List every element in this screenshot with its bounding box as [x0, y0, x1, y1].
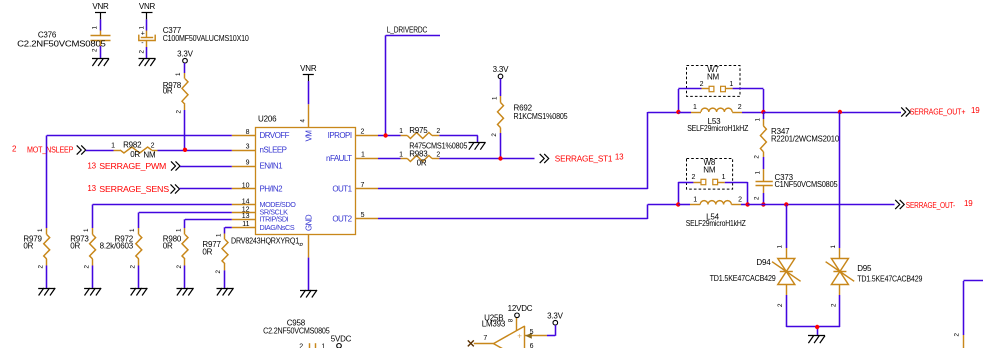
svg-text:1: 1: [693, 104, 697, 111]
svg-text:1: 1: [175, 228, 182, 232]
junction R692/SERRAGE_ST1: [498, 156, 502, 160]
svg-text:12VDC: 12VDC: [508, 304, 533, 313]
U206 pin 9 EN/IN1: [232, 160, 283, 171]
wire SR/SCLK to R972: [139, 213, 232, 229]
svg-text:14: 14: [242, 198, 250, 205]
svg-text:2: 2: [491, 133, 498, 137]
svg-text:NM: NM: [703, 166, 716, 175]
svg-text:D95: D95: [857, 264, 872, 273]
junction D95 branch: [838, 110, 842, 114]
svg-text:0R: 0R: [23, 242, 33, 251]
wire D94 to ground rail: [786, 285, 788, 328]
power symbol 3.3V (U25B): [547, 312, 564, 325]
transistor D94 TVS: [710, 245, 801, 308]
svg-text:NM: NM: [707, 73, 720, 82]
svg-text:1: 1: [175, 72, 182, 76]
svg-text:1: 1: [399, 128, 403, 135]
svg-text:SELF29microH1kHZ: SELF29microH1kHZ: [686, 219, 746, 228]
power symbol VNR (C377): [139, 2, 156, 19]
svg-text:SERRAGE_OUT+: SERRAGE_OUT+: [910, 107, 966, 116]
svg-text:1: 1: [361, 152, 365, 159]
svg-text:U206: U206: [258, 115, 277, 124]
power symbol 5VDC: [331, 335, 352, 348]
svg-text:VNR: VNR: [300, 64, 317, 73]
wire SERRAGE_SENS to PH/IN2: [180, 188, 232, 190]
jumper W8 (NM): [687, 158, 733, 189]
svg-text:1: 1: [492, 96, 499, 100]
wire R978 to nSLEEP net: [184, 104, 186, 149]
U206 pin 11 DIAG/NsCS: [232, 221, 295, 232]
ground (R980): [177, 288, 194, 296]
svg-text:2: 2: [777, 303, 784, 307]
resistor R978: [163, 72, 188, 114]
wire C377 to ground: [146, 41, 148, 59]
wire W8 bypass: [678, 182, 747, 205]
wire 3.3V to R692: [500, 79, 502, 103]
wire GND pin to ground: [308, 258, 310, 290]
wire R980 to ground: [184, 266, 186, 289]
wire VNR to C377: [146, 19, 148, 37]
svg-text:19: 19: [971, 106, 980, 115]
power symbol VNR (C376): [92, 2, 109, 19]
power symbol VNR (U206 VM): [300, 64, 317, 81]
svg-text:TD1.5KE47CACB429: TD1.5KE47CACB429: [857, 275, 923, 284]
wire OUT2 to L54 node: [378, 205, 678, 220]
U206 pin 4 VM: [300, 104, 314, 141]
wire MODE/SDO to R973: [93, 205, 232, 229]
op-amp U25B LM393: [482, 313, 525, 348]
svg-text:OUT2: OUT2: [332, 215, 352, 224]
wire D95 to ground rail: [839, 285, 841, 328]
svg-text:0R: 0R: [417, 158, 427, 167]
svg-text:5: 5: [361, 212, 365, 219]
svg-text:DRVOFF: DRVOFF: [260, 131, 290, 140]
svg-text:5VDC: 5VDC: [331, 335, 352, 344]
wire R982 to nSLEEP pin: [152, 150, 232, 152]
wire C373 to SERRAGE_OUT- net: [763, 186, 765, 205]
wire R347 to C373: [763, 152, 765, 182]
wire to off-page component (right edge): [954, 281, 983, 348]
svg-text:9: 9: [246, 160, 250, 167]
ground (R977): [217, 288, 234, 296]
capacitor C376: [17, 26, 110, 53]
svg-text:1: 1: [722, 174, 726, 181]
svg-text:13: 13: [87, 162, 96, 171]
jumper W7 (NM): [687, 65, 741, 96]
resistor R979: [23, 228, 49, 269]
U206 pin 13 ITRIP/SDI: [232, 213, 289, 224]
wire DRVOFF net: [47, 136, 232, 229]
inductor L53: [678, 104, 763, 133]
svg-text:DIAG/NsCS: DIAG/NsCS: [260, 223, 295, 232]
svg-text:SERRAGE_SENS: SERRAGE_SENS: [99, 185, 169, 194]
svg-text:L_DRIVERDC: L_DRIVERDC: [387, 26, 428, 35]
ground (C377): [139, 59, 156, 67]
svg-text:SERRAGE_ST1: SERRAGE_ST1: [555, 154, 613, 163]
power symbol 3.3V (R692): [493, 65, 510, 79]
svg-text:2: 2: [361, 128, 365, 135]
resistor R982: [111, 141, 156, 160]
U206 pin 2 IPROPI: [328, 128, 378, 140]
svg-text:8: 8: [246, 129, 250, 136]
U206 pin 5 OUT2: [332, 212, 378, 224]
svg-text:13: 13: [87, 184, 96, 193]
capacitor C958: [263, 319, 330, 348]
resistor R692: [491, 96, 568, 137]
svg-text:VNR: VNR: [92, 2, 109, 11]
junction OUT1/W7/L53: [676, 110, 680, 114]
svg-text:-: -: [141, 40, 144, 47]
wire OUT+ to D95: [839, 112, 841, 259]
svg-text:2: 2: [436, 152, 440, 159]
U25B pin 6 label: [530, 343, 534, 348]
wire VNR to C376: [100, 19, 102, 35]
svg-text:10: 10: [242, 183, 250, 190]
wire R973 to ground: [92, 266, 94, 289]
svg-text:1: 1: [129, 228, 136, 232]
svg-text:1: 1: [321, 343, 325, 348]
svg-text:R2201/2WCMS2010: R2201/2WCMS2010: [771, 134, 840, 143]
wire R979 to ground: [46, 266, 48, 289]
U206 pin 6 GND: [298, 214, 314, 258]
resistor R977: [202, 233, 228, 274]
net L_DRIVERDC label: [387, 26, 428, 35]
svg-text:SERRAGE_PWM: SERRAGE_PWM: [99, 162, 166, 171]
power symbol 3.3V (R978): [177, 50, 194, 64]
svg-text:nSLEEP: nSLEEP: [260, 146, 287, 155]
svg-text:2: 2: [12, 145, 17, 154]
svg-text:2: 2: [299, 343, 303, 348]
wire R972 to ground: [138, 266, 140, 289]
svg-text:11: 11: [242, 221, 249, 228]
junction L54/W8: [745, 202, 749, 206]
svg-text:IPROPI: IPROPI: [328, 131, 352, 140]
svg-text:1: 1: [830, 245, 837, 249]
U206 pin 1 nFAULT: [326, 152, 378, 164]
svg-text:3: 3: [246, 144, 250, 151]
U206 pin 3 nSLEEP: [232, 144, 287, 155]
node SERRAGE_SENS input flag: [87, 184, 179, 194]
svg-text:1: 1: [92, 26, 99, 30]
wire OUT1 to L53 node: [378, 112, 678, 189]
capacitor C373: [753, 171, 838, 201]
svg-text:1: 1: [139, 26, 146, 30]
svg-text:+: +: [517, 332, 522, 341]
svg-text:2: 2: [176, 110, 183, 114]
junction TVS ground: [815, 325, 819, 329]
svg-text:1: 1: [399, 152, 403, 159]
node MOT_NSLEEP input flag: [12, 145, 86, 155]
svg-text:C2.2NF50VCMS0805: C2.2NF50VCMS0805: [263, 327, 330, 336]
wire R975 to ground: [439, 136, 477, 143]
svg-text:C376: C376: [38, 30, 57, 39]
inductor L54: [678, 197, 747, 228]
ground (R975): [469, 142, 486, 150]
svg-text:13: 13: [615, 152, 624, 161]
wire VNR to VM pin: [308, 81, 310, 104]
svg-text:3.3V: 3.3V: [177, 50, 194, 59]
svg-text:PH/IN2: PH/IN2: [260, 185, 284, 194]
svg-text:R975: R975: [409, 126, 428, 135]
svg-text:2: 2: [139, 50, 146, 54]
node SERRAGE_OUT+ output flag: [901, 106, 980, 117]
wire SERRAGE_OUT+ net: [763, 112, 901, 114]
svg-text:2: 2: [738, 104, 742, 111]
svg-text:+: +: [141, 30, 145, 37]
svg-text:C1NF50VCMS0805: C1NF50VCMS0805: [775, 180, 839, 189]
node SERRAGE_PWM input flag: [87, 161, 180, 171]
node SERRAGE_ST1 output flag: [540, 152, 624, 163]
junction C373/OUT-: [761, 202, 765, 206]
wire C376 to ground: [100, 41, 102, 59]
wire TVS ground rail: [786, 327, 840, 336]
wire nFAULT to R983: [378, 158, 401, 160]
svg-text:SERRAGE_OUT-: SERRAGE_OUT-: [906, 201, 956, 210]
svg-text:1: 1: [693, 197, 697, 204]
svg-text:0R: 0R: [70, 242, 80, 251]
svg-text:2: 2: [436, 128, 440, 135]
wire R983 to SERRAGE_ST1 flag: [439, 158, 534, 160]
resistor R975: [399, 126, 468, 150]
wire 3.3V to U25B pin 5: [547, 325, 556, 336]
wire OUT- to D94: [786, 205, 788, 259]
wire ITRIP/SDI to R980: [185, 219, 232, 228]
svg-text:2: 2: [92, 48, 99, 52]
svg-text:0R: 0R: [130, 150, 140, 159]
U25B pin 7 no-connect: [468, 335, 494, 346]
svg-text:DRV8243HQRXYRQ1: DRV8243HQRXYRQ1: [231, 236, 300, 245]
resistor R980: [163, 228, 188, 269]
svg-text:R983: R983: [409, 150, 428, 159]
junction OUT2/W8/L54: [676, 202, 680, 206]
svg-text:6: 6: [298, 242, 305, 246]
svg-text:2: 2: [151, 143, 155, 150]
resistor R973: [70, 228, 95, 269]
svg-text:5: 5: [530, 329, 534, 336]
svg-text:13: 13: [242, 213, 250, 220]
svg-text:C2.2NF50VCMS0805: C2.2NF50VCMS0805: [17, 39, 106, 48]
resistor R347: [753, 112, 839, 159]
svg-text:0R: 0R: [163, 242, 173, 251]
svg-text:0R: 0R: [202, 247, 212, 256]
resistor R983: [399, 150, 440, 168]
wire DIAG/NsCS to R977: [225, 227, 232, 233]
svg-text:GND: GND: [305, 214, 314, 231]
junction IPROPI/L_DRIVERDC: [383, 133, 387, 137]
resistor R972: [100, 228, 142, 269]
ground (U206): [300, 290, 317, 298]
svg-text:2: 2: [738, 197, 742, 204]
svg-text:VM: VM: [305, 130, 314, 142]
svg-text:R692: R692: [514, 104, 533, 113]
svg-text:2: 2: [176, 265, 183, 269]
svg-text:D94: D94: [756, 258, 771, 267]
ground (R973): [84, 288, 101, 296]
svg-text:2: 2: [753, 155, 760, 159]
wire SERRAGE_OUT- net: [748, 204, 895, 206]
wire MOT_NSLEEP to R982: [86, 150, 120, 152]
op-amp U206 DRV8243 body: [231, 115, 356, 246]
junction D94 branch: [784, 202, 788, 206]
wire SERRAGE_PWM to EN/IN1: [180, 166, 232, 168]
U206 pin 7 OUT1: [332, 182, 378, 194]
ground (C376): [92, 59, 109, 67]
wire 3.3V to R978: [184, 63, 186, 79]
svg-text:3.3V: 3.3V: [547, 312, 564, 321]
U206 pin 14 MODE/SDO: [232, 198, 296, 209]
U206 pin 8 DRVOFF: [232, 129, 290, 140]
svg-text:1: 1: [83, 228, 90, 232]
wire R977 to ground: [224, 270, 226, 288]
junction nSLEEP/R978: [183, 148, 187, 152]
svg-text:nFAULT: nFAULT: [326, 154, 352, 163]
wire IPROPI to R975: [378, 135, 401, 137]
svg-text:1: 1: [755, 171, 762, 175]
svg-text:R982: R982: [123, 141, 142, 150]
svg-text:2: 2: [38, 265, 45, 269]
svg-text:EN/IN1: EN/IN1: [260, 162, 284, 171]
wire L_DRIVERDC: [386, 35, 441, 135]
svg-text:C100MF50VALUCMS10X10: C100MF50VALUCMS10X10: [163, 34, 250, 43]
svg-text:7: 7: [361, 182, 365, 189]
svg-text:6: 6: [530, 343, 534, 348]
svg-text:1: 1: [729, 81, 733, 88]
svg-text:1: 1: [777, 245, 784, 249]
svg-text:8.2k/0603: 8.2k/0603: [100, 242, 134, 251]
svg-text:LM393: LM393: [482, 320, 506, 329]
node SERRAGE_OUT- output flag: [895, 199, 973, 210]
svg-text:SELF29microH1kHZ: SELF29microH1kHZ: [687, 124, 748, 133]
ground (TVS): [808, 336, 825, 344]
svg-text:MOT_NSLEEP: MOT_NSLEEP: [27, 146, 73, 155]
capacitor C377 (polarized): [139, 26, 250, 54]
ground (R972): [130, 288, 147, 296]
svg-text:1: 1: [37, 228, 44, 232]
svg-text:VNR: VNR: [139, 2, 156, 11]
svg-text:2: 2: [700, 81, 704, 88]
svg-text:R1KCMS1%0805: R1KCMS1%0805: [514, 112, 569, 121]
svg-text:1: 1: [111, 143, 115, 150]
wire R692 to SERRAGE_ST1 node: [500, 128, 502, 159]
svg-text:8: 8: [508, 318, 515, 322]
U25B pin 5 input: [525, 329, 547, 339]
svg-text:4: 4: [300, 119, 307, 123]
ground (R979): [38, 288, 55, 296]
svg-text:NM: NM: [143, 151, 156, 160]
svg-text:2: 2: [954, 333, 961, 337]
svg-text:3.3V: 3.3V: [493, 65, 510, 74]
svg-text:TD1.5KE47CACB429: TD1.5KE47CACB429: [710, 274, 777, 283]
svg-text:2: 2: [691, 174, 695, 181]
svg-text:2: 2: [215, 270, 222, 274]
svg-text:7: 7: [483, 335, 487, 342]
svg-text:2: 2: [83, 265, 90, 269]
wire W7 bypass: [678, 89, 763, 113]
svg-text:1: 1: [215, 233, 222, 237]
svg-text:1: 1: [755, 118, 762, 122]
svg-text:OUT1: OUT1: [332, 185, 352, 194]
power symbol 12VDC: [508, 304, 533, 318]
svg-text:2: 2: [130, 265, 137, 269]
junction L53/R347/SERRAGE_OUT+: [761, 110, 765, 114]
svg-text:19: 19: [964, 199, 973, 208]
U206 pin 10 PH/IN2: [232, 183, 283, 194]
svg-text:2: 2: [830, 303, 837, 307]
U206 pin 12 SR/SCLK: [232, 206, 288, 216]
transistor D95 TVS: [826, 245, 923, 308]
svg-text:0R: 0R: [163, 87, 173, 96]
svg-text:2: 2: [753, 196, 760, 200]
